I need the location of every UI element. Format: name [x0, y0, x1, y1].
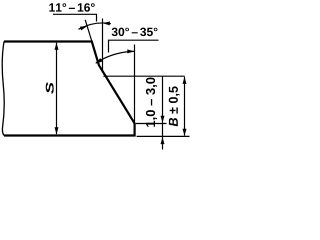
arrowhead at bevel end of 30-35 arc (points down-left) — [95, 58, 102, 64]
horizontal extension line from bevel bottom vertex (1,0-3,0 dim) — [136, 123, 167, 125]
steep edge thin extension above plate — [85, 20, 92, 42]
leader line of 11-16 label — [53, 14, 97, 21]
leader line of 30-35 label — [109, 40, 159, 52]
label 1,0-3,0 — [146, 78, 157, 127]
label B +/- 0,5 — [169, 86, 180, 126]
S thickness dimension line — [56, 43, 58, 135]
label S — [46, 82, 54, 94]
B top arrowhead (points up) — [183, 77, 187, 84]
S bottom arrowhead (points down) — [55, 127, 59, 134]
lower arrowhead of 1,0-3,0 (points up) — [161, 137, 165, 144]
arc of 11-16deg angle dimension — [79, 23, 111, 29]
left arrowhead of 11-16 arc (outside, points right) — [80, 26, 87, 30]
upper arrowhead of 1,0-3,0 (points down) — [161, 116, 165, 123]
dimension line 1,0-3,0 (outside arrows) — [162, 76, 164, 149]
B dimension line (inside arrows) — [184, 77, 186, 136]
vertical reference line for 11-16deg angle — [102, 19, 104, 72]
S top arrowhead (points up) — [55, 43, 59, 50]
right arrowhead of 11-16 arc (outside, points left) — [103, 21, 110, 25]
B bottom arrowhead (points down) — [183, 129, 187, 136]
horizontal extension line from bevel top vertex (B dim) — [103, 75, 184, 77]
vertical reference line for 30-35deg angle — [134, 45, 136, 124]
arc of 30-35deg angle dimension — [96, 51, 134, 63]
left break (wavy) line of plate — [2, 42, 4, 136]
label 11deg-16deg — [49, 3, 94, 12]
arrowhead at vertical-line end of 30-35 arc (points right) — [127, 49, 134, 53]
label 30deg-35deg — [112, 28, 158, 37]
horizontal extension line from plate bottom edge — [137, 135, 190, 137]
plate outline: top edge, steep 11-16deg edge, 30-35deg bevel, root face, bottom edge — [4, 42, 135, 136]
